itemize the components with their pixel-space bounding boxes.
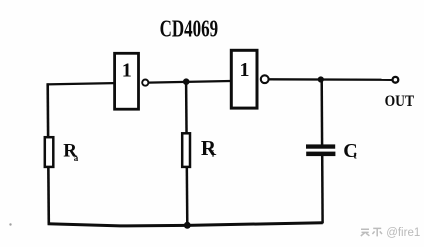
svg-text:1: 1 [122,60,132,82]
svg-text:a: a [74,153,79,163]
svg-text:CD4069: CD4069 [160,17,219,43]
svg-text:OUT: OUT [385,93,415,110]
svg-text:1: 1 [240,59,250,81]
svg-text:@fire1: @fire1 [386,227,420,239]
svg-text:R: R [201,136,217,160]
